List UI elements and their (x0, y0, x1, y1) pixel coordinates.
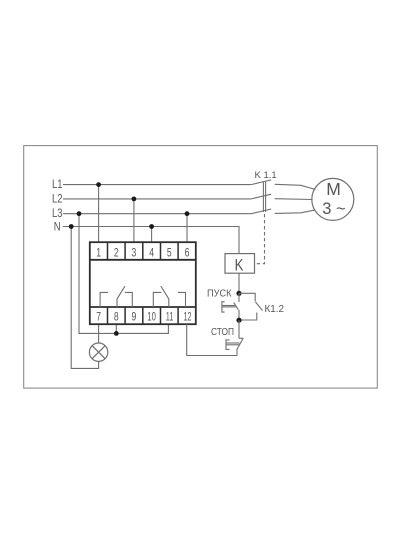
svg-text:K: K (235, 256, 244, 274)
svg-text:10: 10 (147, 309, 156, 323)
relay contact group 1 (terminals 7-8-9) (100, 286, 132, 307)
svg-text:3: 3 (132, 245, 137, 259)
wire coil K to node A (238, 273, 240, 293)
wire pole2 to motor (275, 198, 313, 201)
svg-text:4: 4 (149, 245, 154, 259)
svg-text:2: 2 (114, 245, 119, 259)
svg-text:К1.2: К1.2 (265, 303, 285, 315)
button PUSK (start, NO pushbutton) (222, 293, 239, 320)
relay contact group 2 (terminals 10-11-12) (153, 286, 185, 307)
button STOP (stop, NC pushbutton) (226, 320, 243, 355)
junction dot L3 left (77, 211, 82, 216)
svg-text:СТОП: СТОП (211, 327, 234, 338)
wire terminal 12 to STOP (187, 324, 237, 355)
wire N to coil K (63, 227, 239, 254)
wire terminal 7 to lamp (98, 324, 100, 343)
dashed link K1.1 to coil K (255, 214, 265, 264)
coil K box (225, 254, 255, 274)
contactor K1.1 pole 1 (251, 180, 271, 185)
contactor K1.1 linkage bar (263, 181, 265, 212)
svg-text:M: M (326, 179, 341, 199)
junction dot L2 (132, 197, 137, 202)
svg-text:5: 5 (167, 245, 172, 259)
svg-text:L2: L2 (52, 193, 63, 205)
svg-text:6: 6 (185, 245, 190, 259)
svg-text:1: 1 (96, 245, 101, 259)
wire L3 to terminal 6 (186, 214, 188, 243)
relay device outline (90, 242, 196, 324)
svg-text:K 1.1: K 1.1 (255, 170, 277, 181)
junction dot L3 right (185, 211, 190, 216)
svg-text:N: N (54, 221, 61, 233)
junction dot N right (149, 224, 154, 229)
svg-text:9: 9 (132, 309, 137, 323)
wire L1 (63, 184, 251, 186)
node A dot (236, 291, 241, 296)
junction dot node under terminal 8 (114, 331, 119, 336)
terminal numbers 1-6 (96, 245, 189, 259)
contactor K1.1 pole 3 (251, 209, 271, 214)
wire L3 (63, 213, 251, 215)
motor M (312, 178, 354, 220)
wire N left drop to lamp (71, 227, 98, 369)
svg-text:ПУСК: ПУСК (207, 289, 232, 300)
junction dot L1 (96, 182, 101, 187)
wire L2 to terminal 3 (133, 199, 135, 242)
svg-text:L1: L1 (52, 179, 63, 191)
terminal numbers 7-12 (96, 309, 191, 323)
junction dot N left (69, 224, 74, 229)
contact K1.2 (latching NO contact) (239, 293, 263, 320)
svg-text:3 ~: 3 ~ (322, 200, 345, 218)
wire L1 to terminal 1 (98, 185, 100, 243)
svg-text:7: 7 (96, 309, 101, 323)
wire pole1 to motor (275, 184, 316, 189)
svg-text:L3: L3 (52, 208, 63, 220)
svg-text:11: 11 (166, 309, 174, 323)
wire N to terminal 4 (151, 227, 153, 243)
wire pole3 to motor (275, 210, 316, 214)
node B dot (236, 318, 241, 323)
lamp HL (89, 343, 107, 361)
svg-text:12: 12 (184, 309, 192, 323)
svg-text:8: 8 (114, 309, 119, 323)
contactor K1.1 pole 2 (251, 194, 271, 199)
wire L3 left drop to terminals 8 and 11 (79, 214, 168, 334)
wire terminal 8 drop (115, 324, 117, 333)
wire L2 (63, 198, 251, 200)
